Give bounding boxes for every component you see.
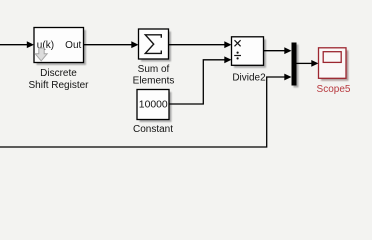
canvas background: [0, 0, 372, 177]
block Discrete Shift Register: [34, 28, 86, 66]
block Divide2: [232, 37, 267, 68]
icon multiply sign: [235, 40, 241, 46]
svg-text:10000: 10000: [139, 100, 168, 111]
wire Divide2 to Mux input 1: [264, 47, 292, 54]
scope Scope5: [319, 48, 349, 81]
icon sigma: [145, 35, 161, 54]
svg-text:Out: Out: [65, 40, 81, 51]
wire Discrete Shift Register to Sum of Elements: [84, 41, 139, 48]
svg-text:Elements: Elements: [133, 75, 175, 86]
svg-text:Constant: Constant: [133, 124, 173, 135]
wire input to Discrete Shift Register: [0, 41, 34, 48]
icon divide sign: [234, 52, 241, 60]
mux Mux: [292, 43, 299, 88]
svg-text:Divide2: Divide2: [232, 73, 266, 84]
svg-text:Scope5: Scope5: [317, 84, 351, 95]
block Constant 10000: [137, 90, 172, 123]
svg-text:Sum of: Sum of: [138, 64, 170, 75]
wire Mux to Scope5: [297, 60, 319, 67]
wire Constant to Divide2 input 2: [169, 56, 232, 104]
svg-text:Discrete: Discrete: [40, 68, 77, 79]
wire feedback from bottom to Mux input 2: [0, 74, 292, 147]
icon gray down arrow: [35, 48, 47, 61]
block Sum of Elements: [139, 29, 172, 62]
wire Sum of Elements to Divide2 input 1: [169, 41, 232, 48]
svg-text:Shift Register: Shift Register: [28, 80, 89, 91]
